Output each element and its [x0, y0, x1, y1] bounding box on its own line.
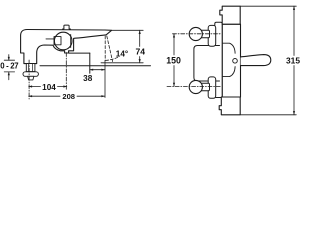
- handle knob on top of valve: [63, 25, 71, 30]
- svg-text:150: 150: [166, 55, 181, 65]
- svg-text:315: 315: [286, 56, 300, 66]
- outlet flange disc: [23, 72, 38, 77]
- outlet centerline (dash-dot): [28, 60, 30, 99]
- bottom cap: [219, 97, 240, 115]
- 74 top extension line: [112, 29, 143, 31]
- valve cartridge circle: [54, 32, 72, 50]
- 38 dimension line with arrows: [90, 69, 105, 71]
- top knob centerline (dash-dot): [173, 33, 222, 35]
- 14 deg dashed arc: [106, 57, 118, 60]
- 315 top extension line: [241, 5, 297, 7]
- 104 dimension line: [29, 86, 41, 88]
- spout tip reference line down to 208 (solid): [104, 61, 106, 98]
- 315 dimension line with arrows: [293, 6, 295, 55]
- bottom knob escutcheon rosette: [208, 77, 216, 98]
- bottom knob round end: [189, 80, 202, 93]
- svg-text:74: 74: [136, 47, 146, 57]
- outlet tip: [28, 76, 34, 80]
- svg-text:104: 104: [42, 83, 56, 92]
- top cap: [220, 6, 240, 24]
- top knob escutcheon rosette: [208, 25, 216, 46]
- svg-text:208: 208: [62, 92, 75, 101]
- left view: bath rim top line: [69, 52, 90, 54]
- 14 deg dashed vertical reference: [104, 36, 106, 61]
- top knob round end: [189, 27, 202, 40]
- 14 deg slanted dashed line: [107, 36, 113, 62]
- svg-text:0 - 27: 0 - 27: [0, 61, 18, 70]
- waist shoulder curves: [223, 43, 236, 53]
- svg-text:38: 38: [83, 74, 93, 83]
- escutcheon plate (left of column): [215, 22, 223, 97]
- left view: bath rim inner edge vertical: [89, 53, 91, 73]
- body tube top detail line: [46, 38, 54, 40]
- bottom knob centerline (dash-dot): [167, 85, 221, 87]
- svg-text:14°: 14°: [116, 50, 128, 59]
- 0-27 top tick: [4, 59, 14, 61]
- column main body: [222, 24, 240, 97]
- faucet body (side view): elbow, pipe, top edge, spout, tip, underside, valve bottom: [21, 30, 112, 64]
- 0-27 arrow lines: [8, 55, 10, 61]
- bottom knob neck: [199, 83, 210, 90]
- spout protrusion (front view): [241, 55, 271, 66]
- 74 dimension line with arrows: [139, 30, 141, 46]
- valve housing right chord: [70, 35, 72, 48]
- mixer body block between knobs: [194, 46, 220, 82]
- small screw circle: [233, 59, 238, 64]
- 315 bottom extension line: [241, 114, 297, 116]
- 0-27 bottom tick: [4, 71, 14, 73]
- valve inner nut rectangle: [54, 37, 61, 45]
- 150 dimension line with arrows: [173, 34, 175, 55]
- top knob neck: [199, 30, 210, 37]
- 208 dimension line: [29, 95, 60, 97]
- left view: long rim/deck reference line: [40, 65, 151, 67]
- valve centerline (dash-dot): [65, 53, 67, 90]
- outlet thread section: [26, 64, 35, 72]
- 74 bottom extension line: [101, 62, 143, 64]
